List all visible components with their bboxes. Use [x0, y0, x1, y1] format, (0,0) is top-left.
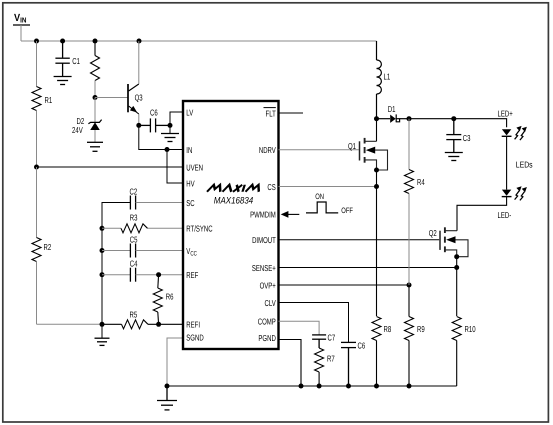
- wire SENSE+: [279, 267, 457, 269]
- svg-text:C1: C1: [72, 56, 80, 66]
- node OVP+: [407, 283, 412, 288]
- wire OVP+: [279, 284, 410, 286]
- svg-text:REFI: REFI: [186, 320, 200, 330]
- node D1 output: [407, 116, 412, 121]
- svg-text:HV: HV: [186, 178, 195, 188]
- capacitor C2: [130, 196, 135, 210]
- svg-text:Q3: Q3: [135, 93, 143, 103]
- svg-text:FLT: FLT: [266, 108, 277, 118]
- svg-text:OFF: OFF: [341, 206, 353, 215]
- capacitor C6 (HV): [139, 118, 170, 132]
- capacitor C4: [102, 268, 183, 282]
- svg-text:R4: R4: [417, 177, 425, 187]
- MAXIM logo: [207, 185, 261, 192]
- node SGND-bus: [165, 384, 170, 389]
- wire bus gnd lead: [101, 324, 103, 338]
- resistor R10: [452, 317, 461, 387]
- diode D1: [377, 114, 410, 122]
- capacitor C6 (CLV): [341, 342, 356, 386]
- node bus-REFI: [100, 322, 105, 327]
- svg-text:C7: C7: [328, 333, 336, 343]
- svg-text:UVEN: UVEN: [186, 162, 203, 172]
- capacitor C3: [446, 119, 461, 152]
- svg-text:SC: SC: [186, 198, 194, 208]
- svg-text:R6: R6: [166, 292, 174, 302]
- wire LED mid: [506, 136, 508, 189]
- PWM pulse waveform: [306, 202, 338, 213]
- svg-text:C5: C5: [130, 235, 138, 245]
- ground C1: [54, 77, 72, 85]
- svg-text:C6: C6: [358, 341, 366, 351]
- node bus-C4: [100, 272, 105, 277]
- node bus-C5: [100, 248, 105, 253]
- VIN supply terminal: [13, 24, 30, 26]
- wire COMP: [279, 321, 320, 335]
- svg-text:R1: R1: [45, 95, 53, 105]
- node rail-bias: [93, 39, 98, 44]
- LED D3 arrows: [515, 126, 527, 140]
- wire ground bus: [167, 385, 457, 387]
- transistor Q2 n-MOSFET: [440, 227, 468, 256]
- node C6 right: [168, 123, 173, 128]
- svg-text:NDRV: NDRV: [259, 145, 276, 155]
- wire CS: [279, 186, 377, 188]
- svg-text:PWMDIM: PWMDIM: [250, 210, 276, 220]
- node IN-HV: [165, 147, 170, 152]
- svg-text:R5: R5: [130, 310, 138, 320]
- svg-text:SENSE+: SENSE+: [252, 263, 276, 273]
- svg-text:CLV: CLV: [265, 298, 276, 308]
- svg-text:LED-: LED-: [498, 210, 512, 220]
- resistor R5: [102, 320, 183, 329]
- ground C3: [445, 153, 463, 161]
- node SENSE+: [454, 265, 459, 270]
- svg-text:MAX16834: MAX16834: [214, 195, 253, 206]
- svg-text:R2: R2: [44, 242, 52, 252]
- svg-text:RT/SYNC: RT/SYNC: [186, 224, 212, 234]
- node Q1 source: [374, 168, 379, 173]
- wire base: [95, 97, 128, 99]
- capacitor C1: [55, 41, 69, 76]
- wire C6 gnd lead: [169, 125, 171, 133]
- wire R2 to REFI: [37, 323, 103, 325]
- node C6-bus: [346, 384, 351, 389]
- svg-text:IN: IN: [186, 145, 192, 155]
- node R7-bus: [317, 384, 322, 389]
- PWMDIM arrow: [287, 213, 299, 215]
- node Q3 emitter: [136, 123, 141, 128]
- IC U1 MAX16834 body: [183, 101, 279, 349]
- svg-text:C3: C3: [463, 133, 471, 143]
- svg-text:LED+: LED+: [498, 109, 513, 119]
- wire IN: [139, 125, 183, 149]
- wire SC: [136, 202, 183, 204]
- wire VIN drop: [20, 25, 22, 41]
- ground left bus: [95, 338, 110, 345]
- svg-text:R7: R7: [327, 354, 335, 364]
- wire UVEN: [37, 166, 184, 168]
- wire DIMOUT to Q2 gate: [279, 239, 440, 241]
- node R8-bus: [374, 384, 379, 389]
- node UVEN-R1: [34, 165, 39, 170]
- LED D4 arrows: [515, 186, 527, 200]
- node R9-bus: [407, 384, 412, 389]
- svg-text:VCC: VCC: [186, 246, 197, 257]
- svg-text:Q2: Q2: [429, 228, 437, 238]
- svg-text:R10: R10: [465, 324, 476, 334]
- resistor bias (unlabeled): [91, 41, 100, 97]
- node CS: [374, 184, 379, 189]
- wire LED- return: [457, 197, 507, 231]
- node C3 tap: [451, 116, 456, 121]
- svg-text:OVP+: OVP+: [260, 280, 276, 290]
- node base: [93, 95, 98, 100]
- resistor R2: [32, 167, 41, 324]
- svg-text:C2: C2: [130, 187, 138, 197]
- svg-text:PGND: PGND: [258, 333, 275, 343]
- node Q2 source: [454, 254, 459, 259]
- transistor Q3: [128, 41, 139, 125]
- resistor R4: [405, 119, 414, 285]
- wire NDRV to Q1 gate: [279, 149, 359, 151]
- wire SGND: [167, 338, 183, 386]
- resistor R6: [153, 275, 162, 325]
- wire Q2 source to R10: [456, 257, 458, 316]
- ground C6: [161, 134, 179, 142]
- capacitor C7: [312, 335, 326, 348]
- svg-text:C6: C6: [150, 108, 158, 118]
- svg-text:R9: R9: [417, 324, 425, 334]
- node L1-D1: [374, 116, 379, 121]
- svg-text:SGND: SGND: [186, 333, 203, 343]
- zener diode D2 24V: [88, 98, 101, 143]
- wire IN to HV: [167, 150, 183, 184]
- resistor R8: [372, 317, 381, 387]
- svg-text:C4: C4: [130, 259, 138, 269]
- svg-text:DIMOUT: DIMOUT: [252, 235, 276, 245]
- svg-text:CS: CS: [267, 182, 276, 192]
- svg-text:LEDs: LEDs: [516, 160, 533, 170]
- svg-text:R8: R8: [384, 324, 392, 334]
- wire Q1 source to R8: [376, 170, 378, 316]
- svg-text:LV: LV: [186, 107, 193, 117]
- wire boost output: [409, 119, 507, 128]
- svg-text:D1: D1: [388, 104, 396, 114]
- pin FLT overline: [264, 107, 276, 109]
- svg-text:Q1: Q1: [348, 141, 356, 151]
- node REFI-R6: [156, 322, 161, 327]
- node rail-C1: [60, 39, 65, 44]
- wire top rail: [21, 40, 377, 42]
- svg-text:COMP: COMP: [258, 317, 276, 327]
- wire CLV: [279, 303, 349, 343]
- ground main: [157, 401, 177, 410]
- resistor R9: [405, 285, 414, 386]
- transistor Q1 n-MOSFET: [360, 138, 388, 170]
- svg-text:REF: REF: [186, 270, 198, 280]
- node REF-R6: [156, 272, 161, 277]
- resistor R7: [315, 348, 324, 386]
- node PGND-bus: [299, 384, 304, 389]
- wire FLT stub: [279, 112, 304, 114]
- svg-text:VIN: VIN: [14, 13, 26, 25]
- resistor R3: [102, 224, 183, 233]
- svg-text:L1: L1: [384, 72, 391, 82]
- wire LV: [170, 112, 183, 125]
- svg-text:R3: R3: [130, 213, 138, 223]
- capacitor C5: [102, 244, 183, 258]
- wire PGND: [279, 340, 302, 387]
- node bus-R3: [100, 226, 105, 231]
- ground D2: [87, 142, 103, 151]
- wire left bus: [102, 203, 130, 325]
- node rail-Q3: [137, 39, 142, 44]
- LED D3: [502, 129, 511, 135]
- inductor L1: [377, 41, 382, 119]
- node rail-R1: [34, 39, 39, 44]
- LED D4: [502, 190, 511, 196]
- resistor R1: [32, 41, 41, 167]
- svg-text:24V: 24V: [72, 125, 83, 135]
- svg-text:ON: ON: [315, 192, 324, 201]
- wire main gnd lead: [166, 386, 168, 400]
